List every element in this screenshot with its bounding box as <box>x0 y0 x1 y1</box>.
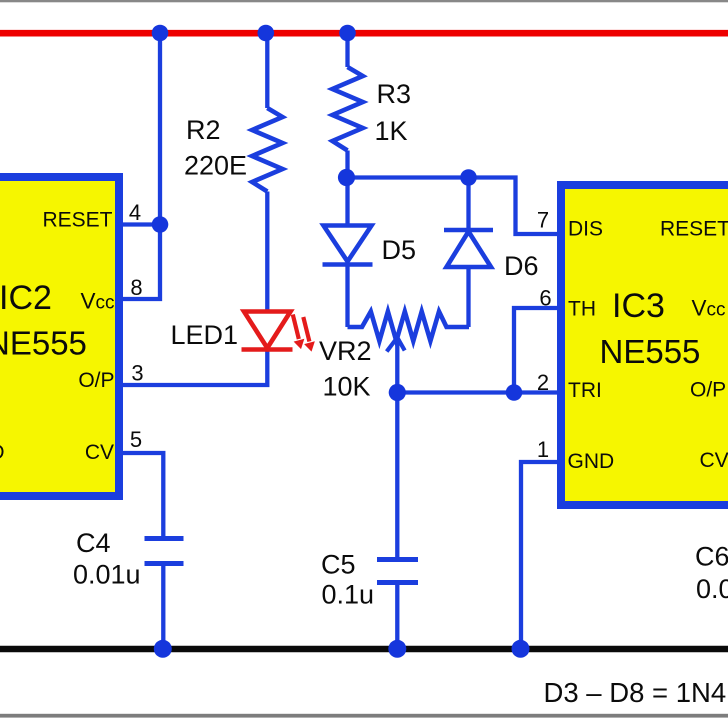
svg-text:C5: C5 <box>321 550 356 580</box>
svg-text:IC3: IC3 <box>612 287 665 325</box>
top frame line <box>0 0 728 2</box>
svg-text:0.1u: 0.1u <box>322 580 375 610</box>
op-amp U1 : IC2 NE555 box <box>0 177 119 496</box>
wire node to D5 <box>345 178 349 226</box>
svg-text:0.01u: 0.01u <box>73 560 141 590</box>
svg-text:NE555: NE555 <box>0 325 87 362</box>
capacitor C4 <box>145 539 184 564</box>
node rail-R3 <box>339 25 356 42</box>
LED1 <box>242 312 315 351</box>
wire R2 to LED1 <box>265 192 269 313</box>
svg-text:3: 3 <box>131 361 143 386</box>
svg-text:NE555: NE555 <box>600 333 701 370</box>
node gnd-C5 <box>388 640 406 658</box>
diode D5 <box>323 226 373 265</box>
svg-text:LED1: LED1 <box>171 320 239 350</box>
wire IC2 pin5 CV to C4 <box>123 453 163 539</box>
svg-text:DIS: DIS <box>568 218 603 241</box>
svg-text:CV: CV <box>85 441 114 464</box>
svg-text:4: 4 <box>129 200 141 225</box>
wire node to D6 <box>466 178 470 231</box>
node pin4 <box>152 216 169 233</box>
potentiometer VR2 <box>348 312 470 342</box>
wire LED1 to O/P pin3 <box>123 350 267 386</box>
wire R3 to node junction <box>345 151 349 178</box>
svg-text:8: 8 <box>130 275 142 300</box>
svg-text:220E: 220E <box>184 151 247 181</box>
wire wiper row to TRI pin2 <box>397 390 557 394</box>
svg-text:IC2: IC2 <box>0 279 52 317</box>
resistor R2 <box>252 108 282 192</box>
svg-text:D5: D5 <box>382 235 417 265</box>
wire C5 to ground <box>395 583 399 650</box>
wire rail to R3 <box>345 33 349 67</box>
svg-text:C6: C6 <box>695 542 728 572</box>
node TRI <box>506 384 523 401</box>
svg-text:D6: D6 <box>504 251 539 281</box>
svg-text:RESET: RESET <box>42 209 112 232</box>
svg-text:GND: GND <box>568 450 615 473</box>
svg-text:Vcc: Vcc <box>692 296 726 321</box>
wire rail to R2 <box>265 33 269 108</box>
wire Vcc rail (red) <box>0 30 728 37</box>
wire C4 to ground <box>161 564 165 650</box>
capacitor C5 <box>377 560 418 583</box>
svg-text:TRI: TRI <box>568 379 602 402</box>
node wiper <box>389 384 406 401</box>
svg-text:TH: TH <box>568 298 596 321</box>
wire wiper node to C5 <box>395 393 399 560</box>
svg-text:CV: CV <box>700 449 728 472</box>
svg-text:Vcc: Vcc <box>80 289 114 314</box>
svg-text:R3: R3 <box>377 79 412 109</box>
wire IC3 pin1 GND to ground <box>521 462 557 649</box>
svg-text:7: 7 <box>537 208 549 233</box>
svg-text:O/P: O/P <box>690 379 726 402</box>
node gnd-C4 <box>154 640 172 658</box>
svg-text:C4: C4 <box>76 528 111 558</box>
svg-text:O/P: O/P <box>78 369 114 392</box>
bottom frame line <box>0 714 728 718</box>
svg-text:VR2: VR2 <box>319 336 372 366</box>
svg-text:GND: GND <box>0 441 5 464</box>
node R3-D5 <box>338 169 355 186</box>
wire IC2 pin4 stub <box>123 222 160 226</box>
svg-text:D3 – D8 = 1N4148: D3 – D8 = 1N4148 <box>544 677 728 708</box>
node rail-x160 <box>152 25 169 42</box>
svg-text:1K: 1K <box>375 116 408 146</box>
node gnd-pin1 <box>512 640 530 658</box>
diode D6 <box>444 230 493 267</box>
svg-text:0.0: 0.0 <box>696 574 728 604</box>
wire D5 to VR2 left <box>345 265 349 328</box>
svg-text:2: 2 <box>537 370 549 395</box>
svg-text:R2: R2 <box>186 115 221 145</box>
svg-text:5: 5 <box>130 427 142 452</box>
svg-text:6: 6 <box>539 286 551 311</box>
wire pin6 TH vertical <box>514 308 557 393</box>
VR2 wiper arrow <box>395 338 399 393</box>
wire ground rail (black) <box>0 646 728 653</box>
node dots <box>152 25 530 658</box>
wire D6 to VR2 right <box>466 267 470 327</box>
wire rail to IC2 pin4/pin8 vertical <box>123 33 160 299</box>
svg-text:1: 1 <box>537 437 549 462</box>
resistor R3 <box>332 67 362 151</box>
op-amp U2 : IC3 NE555 box <box>561 185 728 505</box>
svg-text:10K: 10K <box>323 372 371 402</box>
wire node row to pin7 corner <box>348 178 558 235</box>
svg-text:RESET: RESET <box>660 218 728 241</box>
node rail-R2 <box>258 25 275 42</box>
node D6 top <box>460 169 477 186</box>
